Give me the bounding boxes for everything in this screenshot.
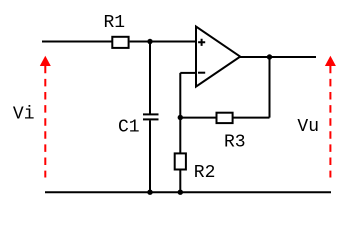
- node B junction dot (feedback / R2 / R3): [178, 115, 183, 120]
- Vu arrow dashed stem: [329, 66, 331, 178]
- wire: bottom ground rail: [45, 191, 331, 193]
- capacitor C1 bottom plate: [143, 118, 159, 120]
- wire: C1 bottom plate down to ground rail: [149, 120, 151, 192]
- op-amp U1 triangle: [196, 27, 240, 87]
- resistor R2: [175, 153, 186, 169]
- Vi arrow dashed stem: [44, 66, 46, 178]
- svg-text:R2: R2: [194, 163, 216, 183]
- op-amp minus input sign: [198, 72, 205, 74]
- wire: op-amp output to right: [239, 56, 316, 58]
- resistor R1: [112, 37, 128, 48]
- wire: node A down to C1 top plate: [149, 42, 151, 114]
- junction dot output/feedback: [267, 54, 272, 59]
- wire: top input wire from left to R1: [42, 41, 112, 43]
- capacitor C1 top plate: [143, 113, 159, 115]
- Vu arrow head: [325, 56, 336, 66]
- svg-text:R1: R1: [104, 13, 126, 33]
- wire: R1 to op-amp + input: [130, 41, 196, 43]
- junction dot R2/ground rail: [178, 190, 183, 195]
- wire: node B to R3: [180, 117, 217, 119]
- Vi arrow head: [40, 56, 51, 66]
- svg-text:C1: C1: [118, 117, 140, 137]
- resistor R3: [217, 113, 233, 123]
- svg-text:Vu: Vu: [297, 117, 319, 137]
- node A junction dot (top wire / C1): [147, 39, 152, 44]
- op-amp plus input sign: [198, 39, 205, 46]
- wire: feedback left vertical (minus input down to node B): [179, 73, 181, 153]
- junction dot C1/ground rail: [147, 190, 152, 195]
- wire: R2 bottom to ground rail: [179, 170, 181, 193]
- wire: feedback right vertical up to output: [269, 57, 271, 118]
- svg-text:R3: R3: [224, 133, 246, 153]
- svg-text:Vi: Vi: [13, 105, 35, 125]
- wire: R3 to feedback right vertical: [233, 117, 270, 119]
- wire: minus input stub: [180, 72, 195, 74]
